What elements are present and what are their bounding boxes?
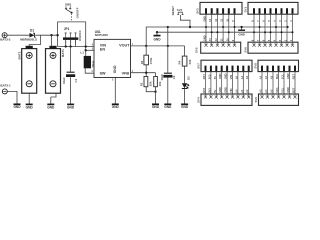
wires SV3 pins to rails	[205, 14, 207, 42]
svg-text:JP1: JP1	[64, 27, 70, 31]
svg-text:A4: A4	[264, 75, 268, 79]
wire VIN net main	[7, 34, 29, 36]
svg-text:GND: GND	[224, 87, 228, 93]
node junction R1/rail	[145, 45, 147, 47]
battery BAT1	[46, 49, 61, 94]
svg-text:SV2: SV2	[177, 8, 183, 12]
connector SV6	[248, 42, 298, 53]
wire BAT2+	[29, 35, 40, 46]
ground under C1	[70, 103, 72, 105]
svg-text:SV1: SV1	[243, 7, 247, 13]
svg-text:SV5: SV5	[194, 47, 198, 53]
svg-text:MBR0520LS: MBR0520LS	[20, 37, 37, 41]
svg-text:GND: GND	[152, 105, 160, 109]
svg-text:VIN: VIN	[229, 88, 233, 92]
svg-text:GND: GND	[13, 105, 21, 109]
ground under LED1	[184, 89, 186, 105]
resistor R4	[184, 46, 186, 56]
svg-text:GND: GND	[112, 105, 120, 109]
ground under BAT2	[28, 93, 30, 104]
svg-text:GND: GND	[203, 35, 207, 41]
svg-text:VIN: VIN	[229, 75, 233, 79]
capacitor C1	[70, 47, 72, 72]
node junction EN	[85, 49, 87, 51]
svg-text:D1: D1	[30, 29, 34, 33]
connector SV5	[201, 42, 241, 53]
svg-text:330: 330	[188, 59, 192, 64]
resistor R3	[155, 73, 157, 77]
svg-text:A1: A1	[240, 89, 244, 93]
svg-text:GND: GND	[113, 65, 117, 73]
connector SV3	[200, 2, 242, 14]
svg-text:3V3: 3V3	[207, 74, 211, 79]
wire VOUT	[131, 45, 185, 47]
svg-text:GND: GND	[218, 87, 222, 93]
svg-text:SCL: SCL	[281, 87, 285, 93]
svg-text:GND: GND	[153, 37, 161, 41]
node junction VFB	[145, 72, 147, 74]
svg-text:C2: C2	[172, 75, 176, 79]
svg-text:GND: GND	[224, 73, 228, 79]
svg-text:GND: GND	[238, 32, 244, 36]
IC U$1 NCP1400	[94, 39, 131, 77]
svg-text:RST: RST	[292, 87, 296, 93]
connector SV1	[248, 2, 298, 14]
svg-text:GND: GND	[47, 105, 55, 109]
svg-text:RST: RST	[292, 74, 296, 80]
wire pad to ground	[7, 91, 17, 103]
svg-text:GND: GND	[26, 105, 34, 109]
svg-text:C1: C1	[74, 78, 78, 82]
svg-text:10k: 10k	[158, 81, 162, 86]
svg-text:SDA: SDA	[275, 87, 279, 93]
node junction JP1 pin2 / C1	[69, 45, 71, 47]
ground at BAT3-1	[16, 103, 18, 106]
svg-text:SW1: SW1	[65, 2, 72, 6]
svg-text:GND: GND	[164, 105, 172, 109]
wire GND rail B	[157, 31, 293, 33]
svg-text:A4: A4	[264, 89, 268, 93]
svg-text:10k: 10k	[148, 81, 152, 86]
wire dashed switch link	[71, 14, 73, 22]
connector pad BAT3-2	[2, 33, 7, 38]
svg-text:GND: GND	[67, 105, 75, 109]
svg-text:A5: A5	[270, 75, 274, 79]
svg-text:GND: GND	[286, 73, 290, 79]
wire JP1 pins to VIN	[58, 46, 94, 48]
svg-text:SV8: SV8	[253, 63, 257, 69]
svg-text:A0: A0	[234, 75, 238, 79]
wire VFB	[131, 72, 156, 74]
node junction main/corner	[56, 34, 58, 36]
node junction JP1 pin1	[65, 45, 67, 47]
svg-text:SW: SW	[100, 72, 106, 76]
svg-text:VOUT: VOUT	[119, 43, 130, 47]
svg-text:BAT1: BAT1	[61, 49, 65, 57]
wire R2 bottom to R3 net	[146, 87, 155, 92]
wire L1 to SW	[85, 68, 94, 73]
svg-text:A1: A1	[240, 75, 244, 79]
svg-text:BAT2: BAT2	[18, 51, 22, 59]
resistor R1	[145, 46, 147, 55]
svg-text:GND: GND	[218, 73, 222, 79]
svg-text:RST: RST	[202, 74, 206, 80]
svg-text:BAT3-1: BAT3-1	[0, 83, 11, 87]
resistor R2	[144, 77, 148, 87]
wire BAT1+	[51, 35, 53, 46]
ground rail left	[156, 31, 158, 33]
ground under C2	[167, 78, 169, 104]
svg-text:EN: EN	[100, 47, 105, 51]
svg-text:GND: GND	[203, 16, 207, 22]
svg-text:A5: A5	[270, 89, 274, 93]
ground IC	[114, 78, 116, 105]
svg-text:R2: R2	[140, 82, 144, 86]
node junction VIN rail	[85, 45, 87, 47]
svg-text:ON/OFF: ON/OFF	[76, 7, 80, 18]
svg-text:SV9: SV9	[254, 97, 258, 103]
svg-text:RST: RST	[202, 87, 206, 93]
svg-text:NCP1400: NCP1400	[95, 33, 108, 37]
svg-text:R4: R4	[177, 60, 181, 64]
svg-text:10uF: 10uF	[160, 74, 164, 81]
connector SV9	[259, 94, 299, 105]
svg-text:SDA: SDA	[275, 74, 279, 80]
svg-text:L1: L1	[80, 50, 84, 54]
svg-text:GND: GND	[286, 87, 290, 93]
svg-text:R1: R1	[140, 60, 144, 64]
wire EN	[86, 49, 94, 51]
capacitor C2	[167, 27, 169, 73]
connector SV8	[258, 60, 299, 71]
svg-text:D2: D2	[187, 76, 191, 80]
diode D1	[30, 33, 35, 38]
svg-text:SV6: SV6	[243, 47, 247, 53]
battery BAT2	[22, 49, 37, 94]
svg-text:SV7: SV7	[196, 63, 200, 69]
wires SV1 pins to rails	[253, 14, 255, 42]
svg-text:SV3: SV3	[196, 8, 200, 14]
wires SV7 to SV4	[205, 72, 207, 94]
svg-text:A2: A2	[245, 75, 249, 79]
ground rail mid	[241, 27, 243, 30]
svg-text:VFB: VFB	[122, 72, 130, 76]
svg-text:A3: A3	[259, 89, 263, 93]
svg-text:SCL: SCL	[281, 74, 285, 80]
svg-text:RESET: RESET	[171, 6, 175, 16]
svg-text:A0: A0	[234, 89, 238, 93]
ground under BAT1	[51, 93, 56, 97]
connector SV4	[201, 94, 252, 105]
wires SV8 to SV9	[261, 72, 263, 94]
svg-text:470k: 470k	[149, 57, 153, 64]
svg-text:5V: 5V	[213, 89, 217, 92]
node junctions top rails	[205, 26, 207, 28]
svg-text:BAT3-2: BAT3-2	[0, 38, 11, 42]
wire VCC rail A	[146, 27, 287, 46]
svg-text:ON/OFF: ON/OFF	[78, 30, 82, 41]
svg-text:5V: 5V	[213, 76, 217, 79]
svg-text:A3: A3	[259, 75, 263, 79]
node junction C2	[167, 45, 169, 47]
svg-text:10uF: 10uF	[62, 77, 66, 84]
svg-text:GND: GND	[181, 105, 189, 109]
svg-text:SV4: SV4	[197, 97, 201, 103]
wire reset net	[180, 15, 190, 27]
ground under R2/R3	[155, 87, 157, 104]
svg-text:A2: A2	[245, 89, 249, 93]
svg-text:3V3: 3V3	[207, 88, 211, 93]
connector SV7	[201, 60, 252, 71]
node junction BAT1+	[50, 34, 52, 36]
